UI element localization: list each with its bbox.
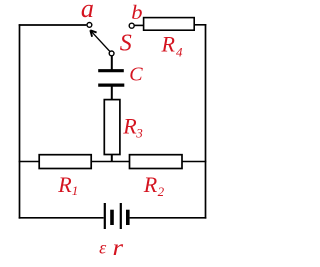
svg-text:4: 4 xyxy=(176,45,183,60)
battery cell plate long 1 xyxy=(104,203,106,229)
svg-text:2: 2 xyxy=(158,184,165,199)
node a terminal circle xyxy=(87,23,92,28)
wire pivot to capacitor xyxy=(111,56,113,71)
resistor R4 body xyxy=(144,18,195,31)
resistor R4 label xyxy=(161,31,184,59)
svg-text:R: R xyxy=(122,113,137,138)
resistor R3 body xyxy=(104,100,120,155)
svg-text:R: R xyxy=(57,172,72,197)
wire left vertical xyxy=(19,24,21,218)
svg-text:b: b xyxy=(131,1,143,23)
capacitor C bottom plate xyxy=(98,83,124,86)
svg-text:R: R xyxy=(161,31,176,56)
svg-text:S: S xyxy=(120,30,132,56)
switch S arm with arrow xyxy=(90,30,110,51)
svg-text:1: 1 xyxy=(72,183,79,198)
svg-text:C: C xyxy=(129,63,143,85)
wire middle rail right segment xyxy=(182,161,206,163)
svg-text:R: R xyxy=(143,172,158,197)
battery cell plate short 1 xyxy=(110,210,114,225)
wire battery to bottom right xyxy=(130,217,207,219)
battery cell plate short 2 xyxy=(126,210,130,225)
resistor R1 body xyxy=(39,155,91,169)
wire node b to R4 xyxy=(135,24,144,26)
resistor R3 label xyxy=(122,113,143,140)
wire top-left horizontal to node a xyxy=(19,24,87,26)
svg-text:3: 3 xyxy=(135,126,143,141)
wire capacitor to R3 xyxy=(111,85,113,100)
wire R3 to middle rail xyxy=(111,155,113,162)
resistor R2 body xyxy=(130,155,183,169)
wire R4 to top-right corner xyxy=(194,24,206,26)
svg-text:r: r xyxy=(113,236,124,261)
wire right vertical xyxy=(205,24,207,219)
wire bottom left to battery xyxy=(19,217,104,219)
svg-text:a: a xyxy=(81,0,94,23)
wire middle rail center segment xyxy=(91,161,129,163)
resistor R1 label xyxy=(57,172,78,198)
node b terminal circle xyxy=(129,23,134,28)
svg-text:ε: ε xyxy=(99,238,107,258)
switch pivot circle xyxy=(109,51,114,56)
resistor R2 label xyxy=(143,172,165,199)
capacitor C top plate xyxy=(98,69,124,72)
battery cell plate long 2 xyxy=(120,203,122,229)
wire middle rail left segment xyxy=(19,161,40,163)
